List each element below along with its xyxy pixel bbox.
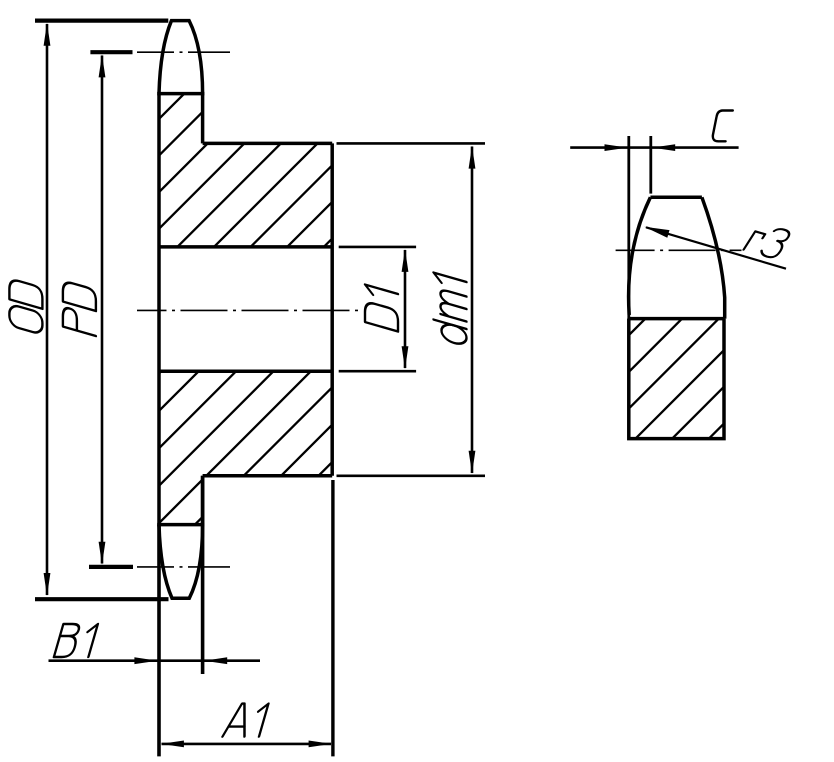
B1 dimension line bbox=[49, 659, 261, 662]
hub right edge bbox=[330, 143, 334, 475]
A1 dimension line bbox=[162, 743, 332, 746]
tooth left extension/profile vertical line bbox=[627, 136, 630, 439]
label dm1 bbox=[434, 273, 467, 347]
tooth top edge bbox=[650, 196, 702, 200]
dm1 extension line top bbox=[337, 142, 486, 145]
C extension tick right bbox=[649, 136, 652, 194]
tooth base line bottom bbox=[157, 523, 204, 527]
rim section box bbox=[629, 319, 724, 439]
B1 extension line left (plate left edge extended) bbox=[157, 525, 161, 757]
tooth right flank curve bbox=[702, 197, 725, 318]
D1 extension line top bbox=[339, 246, 416, 249]
centerline top tooth bbox=[137, 51, 230, 53]
centerline bottom tooth bbox=[137, 566, 230, 568]
label C bbox=[713, 111, 733, 142]
A1 extension line right bbox=[331, 480, 334, 756]
OD dimension line bbox=[46, 24, 49, 595]
labels (technical stroked glyphs) bbox=[9, 111, 792, 737]
tooth left flank curve bbox=[629, 197, 651, 315]
bore top edge bbox=[159, 245, 332, 249]
hatch tooth section (right view) bbox=[514, 310, 834, 450]
OD extension line bottom bbox=[35, 597, 169, 601]
bottom tooth bbox=[159, 525, 203, 599]
D1 dimension line bbox=[404, 250, 407, 368]
plate left edge bbox=[157, 94, 161, 525]
label B1 bbox=[54, 624, 98, 657]
hatch upper body bbox=[8, 60, 511, 270]
dm1 dimension line bbox=[471, 147, 474, 474]
centerline main bore axis bbox=[137, 309, 362, 311]
dm1 extension line bottom bbox=[337, 474, 486, 477]
top tooth bbox=[159, 21, 203, 94]
plate right edge upper bbox=[201, 94, 205, 144]
tooth bottom edge / rim line bbox=[629, 317, 725, 321]
label r3 bbox=[744, 223, 793, 259]
hub bottom edge bbox=[203, 474, 333, 478]
label A1 bbox=[223, 704, 269, 737]
label OD bbox=[9, 278, 42, 334]
PD dimension line bbox=[101, 56, 104, 564]
sprocket body outline bbox=[157, 21, 332, 599]
D1 extension line bottom bbox=[339, 370, 416, 373]
label D1 bbox=[365, 285, 398, 332]
hatch lower body bbox=[0, 350, 444, 540]
tooth base line top bbox=[157, 92, 204, 96]
label PD bbox=[63, 281, 96, 336]
C dimension line bbox=[570, 146, 738, 149]
centerline right view bbox=[616, 249, 742, 251]
right view tooth profile outline bbox=[629, 136, 725, 439]
B1 extension line right bbox=[201, 476, 205, 674]
bore bottom edge bbox=[159, 369, 332, 373]
r3 leader line bbox=[646, 227, 786, 268]
hub top edge bbox=[203, 142, 333, 146]
PD extension line bottom bbox=[89, 565, 133, 569]
PD extension line top bbox=[90, 50, 132, 54]
OD extension line top bbox=[35, 19, 168, 23]
plate right edge lower bbox=[201, 476, 205, 525]
